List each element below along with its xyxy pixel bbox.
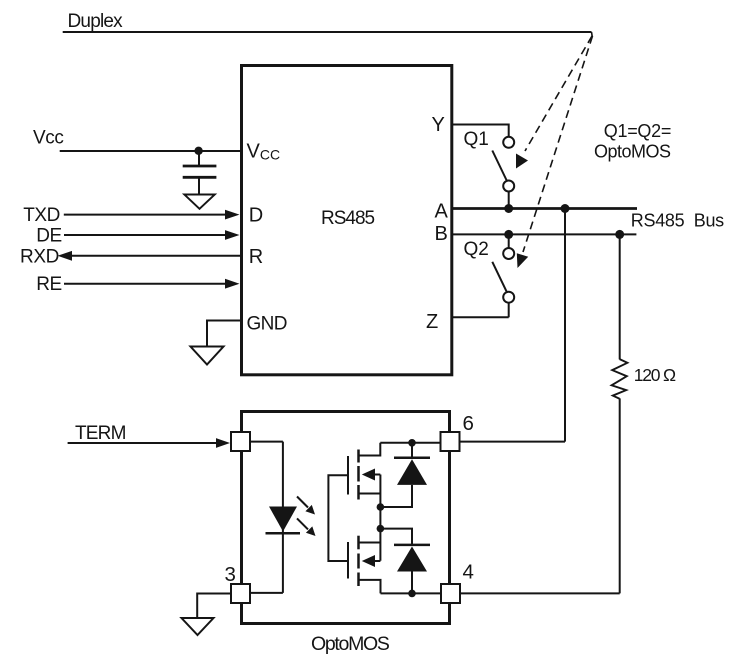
svg-text:RS485: RS485 [321,208,375,229]
svg-text:4: 4 [463,560,474,583]
svg-text:B: B [435,223,448,245]
svg-text:RXD: RXD [20,246,59,267]
svg-text:RE: RE [36,274,62,295]
svg-text:RS485 Bus: RS485 Bus [631,210,724,230]
svg-text:VCC: VCC [247,141,281,163]
svg-text:OptoMOS: OptoMOS [594,142,671,162]
svg-text:Z: Z [426,311,438,333]
svg-text:DE: DE [36,225,62,246]
svg-text:TXD: TXD [23,205,60,226]
svg-text:Duplex: Duplex [68,11,124,32]
svg-text:Q1=Q2=: Q1=Q2= [604,121,671,141]
svg-text:Y: Y [432,114,445,136]
svg-text:GND: GND [247,313,287,334]
svg-text:6: 6 [463,412,474,435]
svg-text:A: A [435,201,449,223]
svg-text:120 Ω: 120 Ω [634,365,676,385]
svg-text:Q2: Q2 [464,239,489,260]
svg-text:R: R [249,246,263,268]
svg-text:OptoMOS: OptoMOS [311,633,390,655]
svg-text:Q1: Q1 [464,129,489,150]
svg-text:3: 3 [225,563,236,586]
svg-text:TERM: TERM [75,423,126,444]
svg-text:D: D [249,205,263,227]
svg-text:Vcc: Vcc [33,128,63,149]
